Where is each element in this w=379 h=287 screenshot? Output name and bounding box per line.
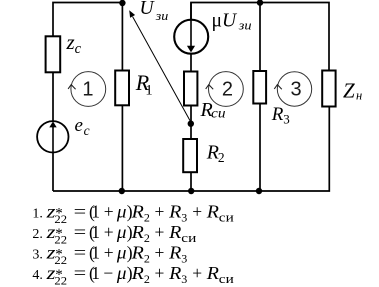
loop 3 circle [277, 72, 311, 106]
svg-text:=: = [74, 203, 87, 222]
svg-text:+: + [155, 243, 165, 263]
svg-text:22: 22 [54, 273, 67, 287]
svg-text:e: e [75, 115, 83, 136]
wire: R_си bottom to source node [190, 106, 192, 140]
node R1-ground (dot) [119, 188, 125, 194]
svg-text:+: + [155, 222, 165, 242]
svg-text:z: z [66, 30, 75, 54]
node source (dot between R_си and R2) [188, 121, 194, 127]
option 2 equation [32, 222, 196, 246]
svg-text:2: 2 [144, 252, 150, 266]
loop 1 arrow [68, 85, 76, 90]
svg-text:2: 2 [222, 79, 233, 101]
node R2-ground (dot) [188, 188, 194, 194]
svg-text:22: 22 [54, 232, 67, 246]
svg-text:зи: зи [238, 18, 252, 33]
svg-text:2: 2 [144, 231, 150, 245]
wire: z_c bottom to e_c top [52, 72, 54, 121]
svg-text:R: R [168, 263, 182, 283]
source e_c arrow (up) [52, 127, 54, 153]
loop 2 circle [209, 72, 244, 107]
svg-text:=: = [74, 223, 87, 242]
svg-text:1.: 1. [32, 207, 43, 222]
svg-text:1: 1 [91, 222, 100, 242]
svg-text:R: R [130, 263, 144, 283]
svg-text:1: 1 [91, 243, 100, 263]
svg-text:3: 3 [290, 79, 301, 101]
svg-text:си: си [211, 106, 226, 121]
node gate (dot at top of R1) [119, 0, 125, 6]
svg-text:μ: μ [116, 263, 127, 283]
svg-text:R: R [168, 202, 182, 222]
resistor R1 [115, 71, 129, 106]
svg-text:=: = [74, 244, 87, 263]
svg-text:+: + [192, 263, 202, 283]
svg-text:R: R [168, 243, 182, 263]
svg-text:+: + [104, 222, 114, 242]
svg-text:+: + [104, 243, 114, 263]
svg-text:2: 2 [218, 150, 225, 165]
svg-text:R: R [130, 222, 144, 242]
wire: drain bus from source branch top to Zn top [191, 3, 329, 71]
svg-text:1: 1 [91, 263, 100, 283]
svg-text:=: = [74, 264, 87, 283]
svg-text:1: 1 [82, 79, 93, 101]
source e_c (circle) [37, 121, 68, 152]
svg-text:μ: μ [116, 222, 127, 242]
svg-text:R: R [168, 222, 182, 242]
svg-text:R: R [271, 104, 284, 125]
svg-text:1: 1 [145, 82, 153, 98]
svg-text:U: U [222, 10, 238, 31]
resistor R3 [253, 71, 266, 104]
wire: R1 branch top [121, 3, 123, 71]
svg-text:R: R [130, 202, 144, 222]
option 4 equation [32, 263, 233, 287]
wire: R3 bottom to ground bus [259, 104, 261, 192]
node R3-ground (dot) [256, 188, 262, 194]
svg-text:c: c [84, 123, 90, 138]
svg-text:22: 22 [54, 212, 67, 226]
wire: source circle to R_си [190, 54, 192, 72]
svg-text:1: 1 [91, 202, 100, 222]
node drain (dot at top of R3 branch) [257, 0, 263, 6]
wire: R1 bottom to ground bus [121, 105, 123, 191]
svg-text:3: 3 [283, 112, 290, 127]
impedance Z_н [322, 71, 335, 107]
wire: e_c bottom to ground bus [52, 153, 54, 192]
wire: ground bus (bottom rail) [53, 107, 329, 192]
svg-text:3: 3 [181, 211, 187, 225]
wire: R3 branch [259, 3, 261, 71]
svg-text:+: + [155, 263, 165, 283]
svg-text:−: − [103, 263, 113, 283]
svg-text:2: 2 [144, 211, 150, 225]
svg-text:си: си [219, 271, 234, 286]
svg-text:2.: 2. [32, 227, 43, 242]
svg-text:3: 3 [181, 272, 187, 286]
svg-text:4.: 4. [32, 268, 43, 283]
loop 3 arrow [274, 85, 282, 90]
resistor R2 [183, 139, 197, 172]
loop 1 circle [71, 72, 106, 107]
svg-text:+: + [104, 202, 114, 222]
wire: gate bus from z_c top to R1 top [53, 3, 123, 38]
svg-text:22: 22 [54, 253, 67, 267]
svg-text:3.: 3. [32, 248, 43, 263]
voltage arrow U_зи (from source node to gate node) [133, 17, 191, 122]
svg-text:н: н [356, 88, 362, 102]
svg-text:c: c [75, 41, 82, 57]
svg-text:зи: зи [155, 8, 169, 23]
svg-text:R: R [130, 243, 144, 263]
wire: drain bus down to dependent source [190, 3, 192, 21]
loop 2 arrow [206, 85, 214, 90]
svg-text:+: + [192, 202, 202, 222]
dependent current source μU_зи (circle) [174, 20, 208, 54]
wire: R2 bottom to ground bus [190, 172, 192, 191]
svg-text:μ: μ [116, 243, 127, 263]
svg-text:+: + [155, 202, 165, 222]
resistor R_си [184, 72, 197, 106]
svg-text:U: U [140, 0, 156, 19]
svg-text:R: R [206, 202, 220, 222]
svg-text:μ: μ [116, 202, 127, 222]
dependent source arrow (down) [190, 20, 192, 47]
option 1 equation [32, 202, 233, 226]
svg-text:си: си [219, 210, 234, 225]
svg-text:Z: Z [343, 79, 355, 103]
svg-text:2: 2 [144, 272, 150, 286]
option 3 equation [32, 243, 187, 267]
svg-text:R: R [206, 263, 220, 283]
svg-text:си: си [181, 230, 196, 245]
resistor z_c [46, 36, 61, 72]
svg-text:μ: μ [212, 10, 222, 31]
svg-text:3: 3 [181, 252, 187, 266]
